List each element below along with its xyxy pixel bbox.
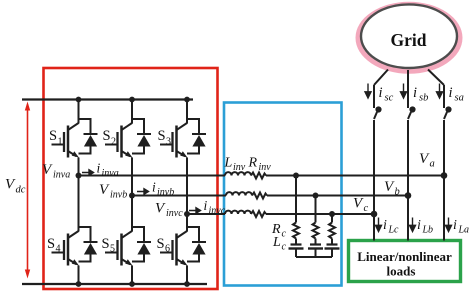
svg-text:Lc: Lc (388, 225, 400, 236)
top dc bus (22, 98, 193, 100)
capacitor branch b (Rc Lc) (308, 196, 323, 258)
node bottom bus b (129, 281, 135, 287)
svg-text:invb: invb (157, 187, 174, 198)
svg-text:i: i (413, 85, 417, 101)
svg-text:S: S (157, 236, 165, 252)
node bottom bus a (76, 281, 82, 287)
wire leg b vertical (131, 100, 133, 285)
svg-text:sc: sc (385, 93, 394, 104)
arrow i_sa (437, 84, 443, 99)
svg-text:L: L (224, 156, 233, 171)
svg-text:Lb: Lb (422, 225, 434, 236)
svg-text:S: S (49, 128, 57, 144)
wire phase b with inductor/resistor (132, 192, 408, 198)
svg-text:i: i (379, 85, 383, 101)
arrow i_La (446, 218, 452, 232)
svg-text:3: 3 (166, 137, 171, 148)
svg-text:6: 6 (165, 244, 170, 255)
svg-text:i: i (453, 218, 457, 233)
node top bus a (76, 97, 82, 103)
Vdc arrow (red, double headed) (25, 102, 30, 279)
transistor S6 (160, 227, 206, 266)
grid branch b vertical + switch (408, 85, 411, 241)
bottom dc bus (22, 283, 207, 285)
svg-text:i: i (449, 85, 453, 101)
svg-text:c: c (282, 242, 287, 253)
svg-text:S: S (102, 236, 110, 252)
svg-text:1: 1 (58, 137, 63, 148)
node top bus c (184, 97, 190, 103)
svg-text:sa: sa (455, 93, 464, 104)
node Vc (371, 211, 378, 218)
wire grid fan (374, 70, 444, 86)
svg-text:i: i (383, 218, 387, 233)
blue box (filter outline) (224, 103, 342, 286)
wire phase c with inductor/resistor (187, 211, 374, 217)
svg-text:R: R (248, 156, 258, 171)
svg-text:Grid: Grid (391, 30, 427, 50)
capacitor branch c (Rc Lc) (325, 214, 340, 257)
svg-text:i: i (417, 218, 421, 233)
transistor S1 (52, 119, 98, 158)
capacitor branch a (Rc Lc) (289, 176, 304, 258)
svg-text:b: b (395, 187, 400, 198)
wire capacitor star bus (296, 256, 332, 258)
svg-text:5: 5 (110, 244, 115, 255)
svg-text:c: c (282, 229, 287, 240)
arrow i_Lb (410, 218, 416, 232)
svg-text:inv: inv (259, 162, 272, 173)
svg-text:S: S (47, 236, 55, 252)
arrow i_sc (365, 84, 371, 99)
node Vinva (76, 173, 82, 179)
green box (loads outline) (349, 241, 461, 282)
svg-text:invb: invb (110, 190, 127, 201)
svg-text:i: i (152, 180, 156, 195)
svg-text:a: a (430, 159, 435, 170)
svg-text:Linear/nonlinear: Linear/nonlinear (357, 249, 452, 264)
node Vinvc (184, 211, 190, 217)
svg-text:2: 2 (111, 137, 116, 148)
svg-text:L: L (272, 235, 281, 250)
arrow i_invc (189, 208, 201, 214)
svg-text:S: S (158, 128, 166, 144)
arrow i_inva (82, 170, 94, 176)
grid branch c vertical + switch (374, 85, 377, 241)
svg-text:i: i (97, 161, 101, 176)
svg-text:loads: loads (387, 264, 416, 279)
node branch a tap (293, 173, 299, 179)
transistor S5 (105, 227, 151, 266)
node branch b tap (313, 193, 319, 199)
svg-text:c: c (364, 203, 369, 214)
arrow i_Lc (376, 218, 382, 232)
svg-text:inv: inv (233, 162, 246, 173)
svg-text:S: S (103, 128, 111, 144)
grid circle (356, 2, 463, 74)
arrow i_sb (401, 84, 407, 99)
arrow i_invb (137, 189, 149, 195)
svg-text:invc: invc (209, 206, 226, 217)
svg-text:La: La (458, 225, 470, 236)
node bottom bus c (184, 281, 190, 287)
wire leg a vertical (78, 100, 80, 285)
svg-text:invc: invc (166, 208, 183, 219)
transistor S2 (105, 119, 151, 158)
grid branch a vertical + switch (444, 85, 447, 241)
svg-text:4: 4 (56, 244, 61, 255)
node Vinvb (129, 193, 135, 199)
svg-text:inva: inva (53, 170, 70, 181)
svg-text:dc: dc (16, 185, 26, 196)
wire leg c vertical (186, 100, 188, 285)
node top bus b (129, 97, 135, 103)
red box (inverter outline) (44, 68, 218, 289)
svg-text:i: i (204, 198, 208, 213)
transistor S4 (52, 227, 98, 266)
transistor S3 (160, 119, 206, 158)
node Vb (405, 192, 412, 199)
wire phase a with inductor/resistor (79, 172, 445, 178)
svg-text:inva: inva (102, 168, 119, 179)
svg-text:sb: sb (419, 93, 428, 104)
node branch c tap (329, 211, 335, 217)
node Va (441, 172, 448, 179)
